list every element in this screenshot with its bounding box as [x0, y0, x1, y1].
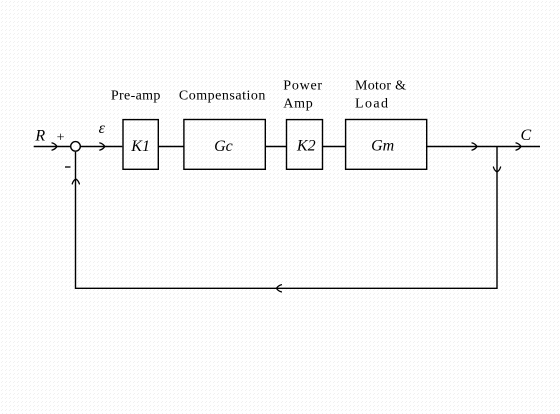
svg-text:R: R [34, 128, 45, 145]
svg-text:Power: Power [283, 79, 322, 94]
svg-text:Motor &: Motor & [355, 79, 406, 94]
svg-text:K1: K1 [130, 138, 150, 155]
svg-text:Gc: Gc [214, 138, 233, 155]
svg-text:C: C [521, 127, 532, 144]
svg-text:Pre-amp: Pre-amp [111, 88, 160, 103]
svg-text:+: + [57, 131, 65, 146]
svg-text:Compensation: Compensation [179, 88, 266, 103]
svg-text:Load: Load [355, 96, 388, 111]
svg-text:K2: K2 [296, 138, 316, 155]
svg-text:ε: ε [99, 120, 106, 137]
svg-text:Amp: Amp [283, 96, 313, 111]
svg-text:Gm: Gm [371, 138, 394, 155]
